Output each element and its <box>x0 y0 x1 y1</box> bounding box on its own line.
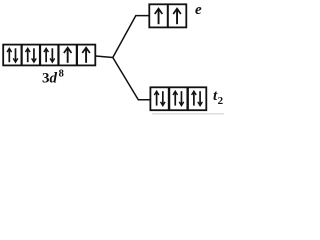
svg-text:e: e <box>195 2 202 18</box>
